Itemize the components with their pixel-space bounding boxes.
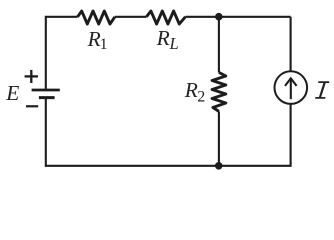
svg-text:R: R <box>87 27 101 51</box>
svg-text:1: 1 <box>100 36 108 53</box>
svg-text:R: R <box>156 26 170 50</box>
voltage source E: battery short plate <box>39 96 55 99</box>
label R2 <box>184 78 206 106</box>
node: bottom junction dot <box>215 162 223 170</box>
plus sign <box>25 70 38 83</box>
wire: between R1 and RL <box>115 16 147 18</box>
minus sign <box>26 105 38 107</box>
resistor R1 <box>78 11 115 24</box>
wire: R2 top lead from junction <box>218 17 220 73</box>
svg-text:2: 2 <box>197 89 205 106</box>
svg-text:E: E <box>5 81 19 105</box>
wire: R2 bottom lead to bottom junction <box>218 111 220 165</box>
svg-text:L: L <box>169 34 179 53</box>
voltage source E: battery long plate <box>32 89 60 92</box>
label R1 <box>87 27 108 53</box>
wire: top-right corner down to current source <box>290 17 292 72</box>
resistor RL <box>147 11 186 24</box>
svg-text:R: R <box>184 78 198 102</box>
current source I <box>275 71 308 104</box>
wire: current source bottom to bottom-right corner <box>46 98 291 166</box>
wire: RL to top-right corner <box>185 16 290 18</box>
wire: left vertical + top-left corner + top run to R1 <box>46 17 78 89</box>
label I <box>315 81 329 99</box>
label RL <box>156 26 179 53</box>
resistor R2 <box>212 72 226 111</box>
node: top junction dot <box>215 13 223 21</box>
